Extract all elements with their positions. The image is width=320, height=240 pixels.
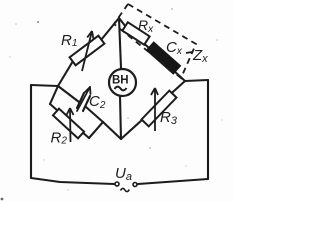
wire bottom rail left bbox=[31, 178, 114, 184]
svg-text:C2: C2 bbox=[89, 93, 106, 111]
wire C2 branch segment 2 bbox=[86, 107, 103, 122]
capacitor Cx (filled block) bbox=[146, 42, 180, 74]
resistor Rx bbox=[122, 22, 149, 45]
svg-text:R2: R2 bbox=[51, 130, 68, 147]
svg-text:R3: R3 bbox=[160, 109, 178, 127]
wire C2 branch segment 1 bbox=[58, 86, 79, 102]
svg-text:Cx: Cx bbox=[166, 39, 183, 57]
dashed box Zx bbox=[114, 4, 196, 78]
source terminal right bbox=[133, 183, 137, 187]
source terminal left bbox=[115, 182, 119, 186]
wire parallelogram right edge bbox=[89, 122, 103, 138]
label ~ (source) bbox=[121, 188, 130, 191]
wire right node to right rail bbox=[185, 80, 208, 81]
svg-text:BH: BH bbox=[112, 75, 129, 87]
svg-text:Zx: Zx bbox=[192, 47, 208, 65]
wire left rail vertical bbox=[30, 85, 32, 178]
wire apex to detector bbox=[119, 18, 121, 68]
wire left node to left rail bbox=[31, 85, 58, 86]
wire bottom-right diagonal (bottom node to right node) bbox=[121, 81, 185, 139]
wire R2 branch bbox=[50, 104, 89, 138]
detector (null indicator) bbox=[109, 69, 136, 96]
resistor R3 (adjustable) bbox=[142, 88, 177, 131]
wire detector to bottom node bbox=[120, 96, 121, 139]
wire bottom rail right bbox=[138, 179, 208, 184]
svg-text:Rx: Rx bbox=[138, 17, 154, 35]
wire C2 branch to bottom node bbox=[103, 122, 121, 139]
svg-text:R1: R1 bbox=[61, 32, 77, 49]
wire parallelogram left edge bbox=[50, 86, 58, 104]
resistor R2 (adjustable) bbox=[53, 108, 84, 142]
wire top-right diagonal (apex to right node) bbox=[119, 18, 185, 81]
label Zx bbox=[186, 52, 192, 53]
svg-text:Ua: Ua bbox=[115, 165, 132, 183]
wire right rail vertical bbox=[207, 80, 209, 179]
scan speckles (decorative) bbox=[1, 8, 223, 200]
resistor R1 (adjustable) bbox=[70, 31, 105, 71]
capacitor C2 (adjustable) bbox=[77, 87, 91, 111]
wire top-left diagonal (left node to apex) bbox=[58, 18, 119, 86]
